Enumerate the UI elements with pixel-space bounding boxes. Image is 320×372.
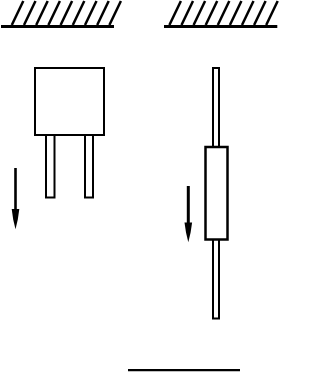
right ceiling support line [164,25,277,28]
left force arrow shaft [14,168,17,213]
left prong leg 1 [46,135,55,198]
bottom datum line [128,369,240,371]
left prong leg 2 [85,135,93,198]
right force arrow shaft [187,186,190,227]
right ceiling hatching [169,1,277,25]
right force arrowhead [185,223,193,243]
right sleeve block [206,147,228,240]
left block body [35,68,104,135]
left ceiling hatching [12,1,121,25]
left ceiling support line [1,25,114,28]
left force arrowhead [12,209,20,229]
right rod [213,68,219,319]
